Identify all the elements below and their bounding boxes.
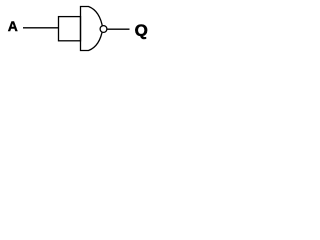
svg-text:A: A [8, 18, 18, 34]
wire output gate to Q [107, 28, 129, 30]
inversion bubble [100, 26, 107, 33]
nand gate U1 rectangle body [59, 17, 81, 41]
wire input A to gate [23, 27, 59, 29]
nand gate U1 D-shaped body [81, 7, 103, 51]
svg-text:Q: Q [135, 23, 148, 40]
